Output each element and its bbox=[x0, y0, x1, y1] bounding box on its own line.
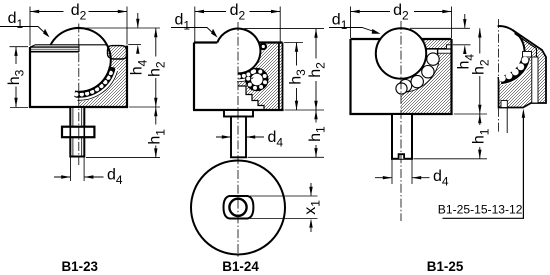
dimension h2 B1-25 bbox=[471, 28, 492, 114]
collar B1-24 bbox=[224, 110, 253, 117]
side view small balls black band bbox=[501, 58, 526, 80]
stepped bore B1-24 bbox=[239, 86, 265, 110]
dimension d4 B1-25 bbox=[375, 168, 449, 189]
retainer groove strip B1-25 bbox=[438, 49, 452, 60]
centerline B1-24 bbox=[237, 22, 239, 258]
small balls B1-25 bbox=[396, 53, 439, 94]
housing section hatch B1-25 bbox=[401, 39, 452, 114]
label d1 B1-23 bbox=[0, 10, 52, 38]
ball B1-25 bbox=[376, 28, 426, 78]
ball outline arc B1-24 bbox=[217, 29, 260, 74]
dimension d2 B1-24 bbox=[195, 2, 280, 42]
small balls white dots B1-23 bbox=[74, 71, 113, 97]
notch groove B1-25 bbox=[447, 45, 452, 49]
extension lines right B1-25 bbox=[410, 28, 487, 159]
small balls black band B1-23 bbox=[74, 66, 115, 97]
side view step notch bbox=[523, 52, 532, 58]
dimension d2 B1-23 bbox=[30, 2, 127, 46]
outer shell wall line B1-24 bbox=[278, 43, 280, 111]
side view pin extension line bbox=[506, 108, 508, 134]
side view centerline bbox=[498, 19, 500, 133]
dimension h2 B1-23 bbox=[147, 28, 168, 107]
dimension h4 B1-25 bbox=[456, 14, 477, 70]
dimension d4 B1-24 bbox=[216, 129, 283, 150]
crimp pocket and ball B1-24 bbox=[260, 43, 268, 51]
stud B1-24 bbox=[231, 117, 246, 158]
threaded stud B1-23 bbox=[70, 107, 84, 157]
side view ball bbox=[473, 26, 525, 78]
bottom view flange circle B1-24 bbox=[191, 161, 285, 255]
side view bottom slot bbox=[501, 101, 507, 108]
side view shell gap bbox=[532, 57, 538, 103]
order code label B1-25-15-13-12 bbox=[438, 109, 525, 219]
ball B1-24 (white fill mask) bbox=[216, 29, 261, 74]
dimension h3 B1-24 bbox=[287, 43, 308, 111]
ball B1-23 (white fill mask) bbox=[47, 28, 111, 92]
side view cap inner edge bbox=[515, 34, 537, 58]
housing outline B1-24 bbox=[193, 43, 284, 111]
dimension d4 B1-23 bbox=[54, 166, 123, 187]
side view small balls white dots bbox=[499, 57, 528, 82]
dimension h1 B1-24 bbox=[307, 110, 328, 157]
dimension x1 B1-24 bbox=[302, 183, 323, 232]
dimension h1 B1-25 bbox=[471, 114, 492, 159]
bottom view slot B1-24 bbox=[224, 196, 254, 219]
housing outline B1-25 bbox=[349, 39, 452, 114]
stud B1-25 bbox=[392, 114, 412, 159]
svg-text:B1-24: B1-24 bbox=[222, 259, 259, 274]
label d1 B1-25 bbox=[329, 11, 381, 36]
stud lower extension lines B1-23 bbox=[71, 157, 85, 182]
ball cavity white zone B1-25 bbox=[401, 49, 439, 92]
svg-text:B1-25-15-13-12: B1-25-15-13-12 bbox=[438, 203, 523, 217]
stud lower extension lines B1-25 bbox=[392, 159, 412, 184]
svg-text:B1-23: B1-23 bbox=[62, 259, 98, 274]
svg-text:B1-25: B1-25 bbox=[427, 259, 464, 274]
dimension h2 B1-24 bbox=[307, 29, 328, 110]
centerline B1-23 bbox=[78, 24, 80, 166]
hex nut B1-23 bbox=[62, 127, 94, 138]
extension lines right B1-24 bbox=[244, 29, 324, 158]
side view housing hatch bbox=[499, 30, 547, 107]
figure label B1-23 bbox=[62, 259, 98, 274]
side view race white zone bbox=[502, 60, 526, 80]
housing outline B1-23 bbox=[29, 45, 128, 107]
centerline B1-25 bbox=[400, 21, 402, 221]
dimension h4 B1-23 bbox=[129, 13, 150, 75]
dimension d2 B1-25 bbox=[351, 2, 452, 38]
label d1 B1-24 bbox=[171, 12, 220, 39]
cup rolled rim core B1-24 bbox=[253, 76, 261, 84]
ball race white zone B1-23 bbox=[74, 68, 117, 100]
dimension h3 B1-23 bbox=[6, 47, 28, 108]
dimension h1 B1-23 bbox=[147, 107, 168, 158]
retainer lip bottom edge B1-25 bbox=[424, 49, 452, 53]
retaining lip piece B1-23 bbox=[108, 46, 127, 59]
ball outline arc B1-23 bbox=[51, 28, 111, 92]
slot extension lines B1-24 bbox=[250, 196, 318, 219]
cup race white zone B1-24 bbox=[236, 68, 268, 91]
housing section hatch B1-23 bbox=[79, 46, 127, 108]
small balls white dots B1-24 bbox=[237, 69, 267, 90]
figure label B1-25 bbox=[427, 259, 464, 274]
extension lines right B1-23 bbox=[84, 28, 160, 158]
housing section hatch B1-24 bbox=[239, 43, 283, 111]
small balls black band B1-24 bbox=[238, 71, 265, 88]
figure label B1-24 bbox=[222, 259, 259, 274]
